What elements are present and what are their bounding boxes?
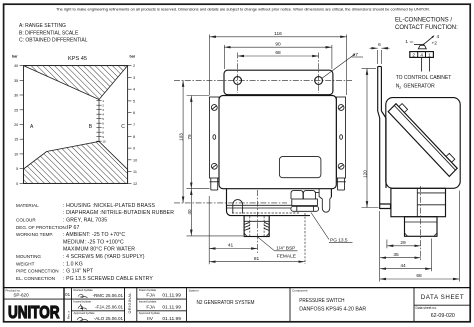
svg-text:N2 GENERATOR SYSTEM: N2 GENERATOR SYSTEM <box>197 300 255 306</box>
svg-text:A: A <box>30 124 34 130</box>
svg-text:01.11.99: 01.11.99 <box>162 304 181 310</box>
svg-text:10: 10 <box>102 139 106 143</box>
svg-text:4: 4 <box>133 88 135 92</box>
svg-text:11: 11 <box>133 170 137 174</box>
svg-text:-FJA 25.06.01: -FJA 25.06.01 <box>95 305 124 310</box>
svg-text:12: 12 <box>133 182 137 186</box>
svg-text:bar: bar <box>12 55 18 59</box>
svg-text:1/4” BSP: 1/4” BSP <box>276 246 295 252</box>
svg-text:120: 120 <box>362 170 367 178</box>
svg-text:01.11.99: 01.11.99 <box>162 316 181 322</box>
svg-text:DEG. OF PROTECTION:: DEG. OF PROTECTION: <box>16 225 67 230</box>
svg-text:KPS 45: KPS 45 <box>68 56 87 62</box>
svg-text:2: 2 <box>412 53 415 58</box>
svg-text:: PG 13.5 SCREWED CABLE ENTRY: : PG 13.5 SCREWED CABLE ENTRY <box>63 276 153 282</box>
svg-text:Approved by/date: Approved by/date <box>74 311 96 315</box>
svg-text:: G 1/4” NPT: : G 1/4” NPT <box>63 269 94 275</box>
svg-text:44: 44 <box>400 263 406 269</box>
svg-text:C: OBTAINED DIFFERENTIAL: C: OBTAINED DIFFERENTIAL <box>19 38 88 44</box>
svg-text:WEIGHT: WEIGHT <box>16 261 35 266</box>
svg-text:4: 4 <box>420 53 423 58</box>
svg-text:3: 3 <box>102 108 104 112</box>
svg-text:MAXIMUM 80°C FOR WATER: MAXIMUM 80°C FOR WATER <box>63 247 135 253</box>
svg-text:IIV: IIV <box>147 316 154 322</box>
svg-text:68: 68 <box>416 273 422 279</box>
svg-text:DATA SHEET: DATA SHEET <box>421 294 465 301</box>
svg-text:116: 116 <box>274 31 282 37</box>
svg-text:29: 29 <box>400 240 406 246</box>
svg-text:Issued by/date: Issued by/date <box>139 300 157 304</box>
svg-text:: GREY, RAL 7035: : GREY, RAL 7035 <box>63 218 107 224</box>
svg-text:15: 15 <box>14 138 18 142</box>
svg-text:WORKING TEMP.: WORKING TEMP. <box>16 232 53 237</box>
svg-text:1: 1 <box>428 53 431 58</box>
svg-text:103: 103 <box>179 133 184 141</box>
svg-text:PRESSURE SWITCH: PRESSURE SWITCH <box>299 298 345 304</box>
svg-text:2: 2 <box>399 86 401 90</box>
svg-text:: HOUSING :NICKEL-PLATED BR: : HOUSING :NICKEL-PLATED BRASS <box>63 203 156 209</box>
svg-text:: DIAPHRAGM :NITRILE-BUTADIEN: : DIAPHRAGM :NITRILE-BUTADIEN RUBBER <box>63 210 174 216</box>
svg-text:Drawn by/date: Drawn by/date <box>139 288 157 292</box>
svg-text:01.11.99: 01.11.99 <box>162 293 181 299</box>
svg-text:10: 10 <box>133 158 137 162</box>
svg-text:-RMC 25.06.01: -RMC 25.06.01 <box>92 293 123 298</box>
svg-text:81: 81 <box>254 256 260 262</box>
svg-text:SP-620: SP-620 <box>13 293 29 298</box>
svg-text:0: 0 <box>16 182 18 186</box>
svg-text:4: 4 <box>102 112 104 116</box>
svg-text:3: 3 <box>133 76 135 80</box>
svg-text:68: 68 <box>275 50 281 56</box>
svg-text:FJA: FJA <box>146 293 155 299</box>
svg-text:Rev. a: Rev. a <box>67 310 71 319</box>
svg-text:The right to make engineering: The right to make engineering refinement… <box>56 8 430 12</box>
svg-text:: AMBIENT: -25 TO +70°C: : AMBIENT: -25 TO +70°C <box>63 232 125 238</box>
svg-text:9: 9 <box>102 135 104 139</box>
svg-text:1: 1 <box>405 39 408 45</box>
svg-text:Component: Component <box>292 288 308 292</box>
svg-text:5: 5 <box>102 117 104 121</box>
svg-text:10: 10 <box>14 152 18 156</box>
svg-text:B: B <box>89 124 93 130</box>
svg-text:bar: bar <box>130 55 136 59</box>
svg-text:C: C <box>121 124 125 130</box>
svg-text:+2: +2 <box>432 41 438 47</box>
svg-text:Issued by/date: Issued by/date <box>74 300 92 304</box>
svg-text:FJA: FJA <box>146 304 155 310</box>
svg-text:6: 6 <box>133 111 135 115</box>
svg-text:A: RANGE SETTING: A: RANGE SETTING <box>19 23 66 29</box>
svg-text:2: 2 <box>133 64 135 68</box>
svg-text:: 1.0 KG: : 1.0 KG <box>63 261 83 267</box>
svg-text:COLOUR: COLOUR <box>16 218 36 223</box>
svg-text:90: 90 <box>275 41 281 47</box>
svg-text:Data sheet no.: Data sheet no. <box>416 306 438 310</box>
svg-text:ORIGINAL: ORIGINAL <box>128 292 132 313</box>
svg-text:9: 9 <box>133 147 135 151</box>
svg-text:System: System <box>189 288 200 292</box>
svg-text:6: 6 <box>102 121 104 125</box>
svg-text:41: 41 <box>228 242 234 248</box>
svg-text:62-09-020: 62-09-020 <box>431 313 455 319</box>
svg-text:EL. CONNECTION: EL. CONNECTION <box>16 276 55 281</box>
svg-text:6: 6 <box>378 42 381 48</box>
svg-text:EL-CONNECTIONS /: EL-CONNECTIONS / <box>395 17 452 23</box>
svg-text:25: 25 <box>14 108 18 112</box>
svg-text:40: 40 <box>187 209 192 215</box>
svg-text:5: 5 <box>16 167 18 171</box>
svg-text:35: 35 <box>393 252 399 258</box>
svg-text:Revised by/date: Revised by/date <box>74 288 94 292</box>
svg-text:DANFOSS KPS45 4-20 BAR: DANFOSS KPS45 4-20 BAR <box>299 307 366 313</box>
svg-text:MEDIUM: -25 TO +100°C: MEDIUM: -25 TO +100°C <box>63 239 124 245</box>
svg-text:Approved by/date: Approved by/date <box>139 311 161 315</box>
svg-text:2: 2 <box>102 103 104 107</box>
svg-text:MOUNTING: MOUNTING <box>16 254 41 259</box>
svg-text:PG 13.5: PG 13.5 <box>330 237 348 243</box>
svg-text:7: 7 <box>102 126 104 130</box>
svg-text:GENERATOR: GENERATOR <box>404 84 436 90</box>
svg-text:8: 8 <box>102 130 104 134</box>
svg-text:ø7: ø7 <box>353 52 359 58</box>
svg-text:01: 01 <box>65 292 70 297</box>
svg-text:-ALO 25.06.01: -ALO 25.06.01 <box>94 316 124 321</box>
svg-text:1: 1 <box>102 99 104 103</box>
svg-text:40: 40 <box>14 64 18 68</box>
svg-text:8: 8 <box>133 135 135 139</box>
svg-text:B: DIFFERENTIAL SCALE: B: DIFFERENTIAL SCALE <box>19 30 79 36</box>
svg-text:IP 67: IP 67 <box>67 225 80 231</box>
svg-text:TO CONTROL CABINET: TO CONTROL CABINET <box>396 75 452 81</box>
svg-text:4: 4 <box>437 34 440 40</box>
svg-text:7: 7 <box>133 123 135 127</box>
svg-text:5: 5 <box>133 99 135 103</box>
svg-text:35: 35 <box>14 79 18 83</box>
svg-text:: 4 SCREWS M6 (YARD SUPPLY): : 4 SCREWS M6 (YARD SUPPLY) <box>63 254 145 260</box>
svg-text:30: 30 <box>14 94 18 98</box>
svg-text:79: 79 <box>187 134 192 140</box>
svg-text:UNITOR: UNITOR <box>8 302 60 322</box>
svg-text:FEMALE: FEMALE <box>277 253 296 259</box>
svg-text:20: 20 <box>14 123 18 127</box>
svg-text:CONTACT FUNCTION:: CONTACT FUNCTION: <box>395 25 458 31</box>
svg-text:MATERIAL: MATERIAL <box>16 203 39 208</box>
svg-text:PIPE CONNECTION: PIPE CONNECTION <box>16 269 59 274</box>
